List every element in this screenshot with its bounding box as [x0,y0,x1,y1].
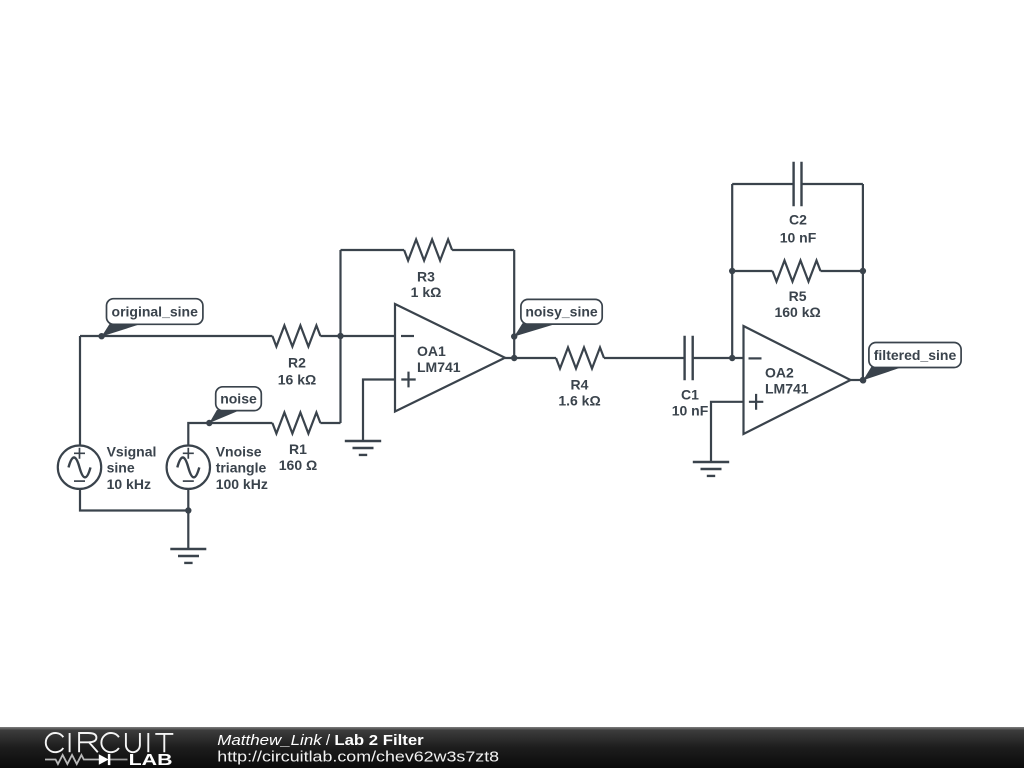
wire C2 top right [802,183,863,185]
label Vnoise value [216,443,268,492]
svg-text:LM741: LM741 [417,359,461,375]
wire Vsignal top to original_sine rail [79,336,81,445]
svg-text:original_sine: original_sine [112,303,199,319]
junction bottom rail [185,507,191,513]
svg-text:R2: R2 [288,354,306,370]
wire R1 to inverting column [320,422,340,424]
wire feedback top to R3 [341,249,405,251]
svg-text:Vnoise: Vnoise [216,443,262,459]
node noisy_sine [511,299,602,339]
label R2 value [278,354,316,387]
svg-text:LAB: LAB [129,752,173,768]
label C1 value [672,386,709,418]
capacitor C2 [794,162,802,207]
ground below OA1 [345,441,381,455]
svg-text:10 kHz: 10 kHz [107,476,151,492]
wire R2 to inverting node [320,335,340,337]
svg-text:noisy_sine: noisy_sine [525,304,598,320]
wire R3 to feedback right [452,249,514,251]
svg-text:LM741: LM741 [765,380,809,396]
wire R4 to C1 [604,357,685,359]
label R5 value [774,288,820,320]
svg-text:C1: C1 [681,386,699,402]
wire OA1 output to R4 [505,357,556,359]
label R1 value [279,441,317,473]
capacitor C1 [685,336,693,381]
svg-text:1.6 kΩ: 1.6 kΩ [558,392,600,408]
svg-text:noise: noise [220,391,257,407]
wire R5 left [732,270,772,272]
voltage source Vsignal [58,446,101,489]
label OA2 value [765,365,809,397]
wire OA1 inverting input [341,335,396,337]
svg-text:OA2: OA2 [765,365,794,381]
label OA1 value [417,343,461,375]
wire OA2 output [851,379,863,381]
svg-text:100 kHz: 100 kHz [216,476,268,492]
node noise [206,387,261,426]
logo CIRCUIT wordmark [46,733,174,752]
junction OA2 inverting node [729,355,735,361]
wire original_sine rail to R2 [80,335,272,337]
svg-text:16 kΩ: 16 kΩ [278,371,316,387]
wire Vsignal bottom rail [80,489,188,511]
svg-text:R4: R4 [571,377,589,393]
junction OA2 output node [860,377,866,383]
svg-text:Vsignal: Vsignal [107,443,157,459]
resistor R4 [556,348,604,369]
node filtered_sine [860,343,961,384]
junction inverting node A [337,333,343,339]
op-amp OA2 [744,326,851,434]
junction R5 right node [860,268,866,274]
svg-text:160 kΩ: 160 kΩ [774,304,820,320]
wire C2 top left [732,183,793,185]
wire OA1 non-inverting input [363,380,395,441]
wire Vnoise bottom to ground [187,489,189,549]
svg-text:10 nF: 10 nF [780,229,817,245]
svg-text:R1: R1 [289,441,307,457]
resistor R3 [404,240,452,261]
label C2 value [780,212,817,246]
wire C1 to OA2 inverting input [693,357,744,359]
wire OA2 input column vertical [731,184,733,358]
svg-text:Matthew_Link / Lab 2 Filter: Matthew_Link / Lab 2 Filter [217,732,423,749]
svg-text:http://circuitlab.com/chev62w3: http://circuitlab.com/chev62w3s7zt8 [217,749,499,766]
svg-text:OA1: OA1 [417,343,446,359]
label R4 value [558,377,600,409]
svg-text:160 Ω: 160 Ω [279,457,317,473]
wire OA2 non-inverting input [711,402,744,462]
svg-text:R3: R3 [417,268,435,284]
svg-text:filtered_sine: filtered_sine [874,347,957,363]
label Vsignal value [107,443,157,492]
wire inverting column vertical [339,250,341,423]
junction R5 left node [729,268,735,274]
ground bottom [170,549,206,563]
resistor R5 [773,261,821,282]
ground below OA2 [693,462,729,476]
junction OA1 output node [511,355,517,361]
voltage source Vnoise [167,446,210,489]
footer bar [0,727,1024,768]
wire right feedback vertical [862,184,864,380]
node original_sine [98,299,202,340]
op-amp OA1 [395,304,505,412]
svg-text:sine: sine [107,460,135,476]
resistor R2 [272,326,320,347]
logo resistor-diode symbol [45,754,128,765]
wire Vnoise top to noise rail [188,423,272,445]
resistor R1 [272,413,320,434]
label R3 value [411,268,442,300]
svg-text:triangle: triangle [216,460,267,476]
svg-text:R5: R5 [789,288,807,304]
wire R5 right [821,270,863,272]
svg-text:C2: C2 [789,212,807,228]
wire feedback right vertical [513,250,515,358]
svg-text:1 kΩ: 1 kΩ [411,284,442,300]
svg-text:10 nF: 10 nF [672,403,709,419]
